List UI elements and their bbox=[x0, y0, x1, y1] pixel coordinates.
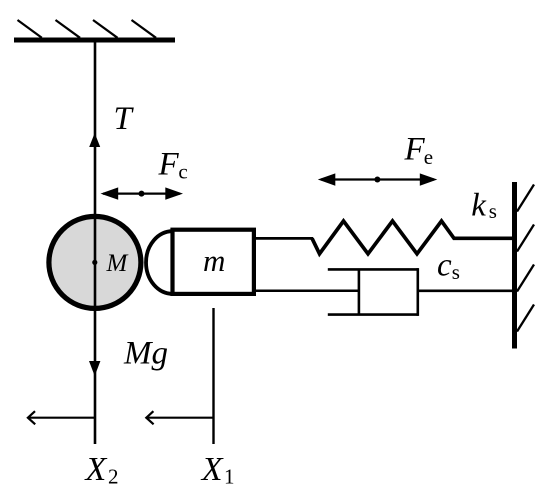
label M bbox=[106, 250, 129, 277]
svg-text:1: 1 bbox=[224, 464, 235, 488]
svg-text:X: X bbox=[84, 451, 108, 488]
damper cylinder bbox=[328, 268, 418, 316]
rod from damper to wall bbox=[418, 289, 512, 292]
weight arrowhead Mg bbox=[89, 361, 100, 376]
mass m block bbox=[173, 230, 254, 294]
svg-text:Mg: Mg bbox=[123, 335, 168, 371]
displacement arrow X1 bbox=[146, 411, 214, 424]
displacement arrow X2 bbox=[28, 411, 96, 424]
svg-text:T: T bbox=[114, 101, 135, 137]
label Fe bbox=[404, 132, 434, 170]
label Fc bbox=[158, 147, 188, 184]
spring ks bbox=[312, 221, 512, 254]
force arrow Fe (double-headed) bbox=[318, 173, 438, 185]
label cs bbox=[437, 248, 460, 284]
svg-text:X: X bbox=[200, 451, 224, 488]
tension arrowhead T bbox=[89, 133, 100, 147]
svg-text:F: F bbox=[404, 132, 426, 168]
contact cap (rounded nose of mass m) bbox=[146, 231, 172, 294]
pendulum wire (vertical line through M, X2 axis) bbox=[94, 40, 97, 444]
force arrow Fc (double-headed) bbox=[101, 187, 184, 199]
wall support bar bbox=[512, 182, 517, 349]
label X2 bbox=[84, 451, 119, 488]
svg-text:m: m bbox=[203, 243, 225, 278]
label ks bbox=[471, 188, 497, 224]
displacement axis line X1 bbox=[212, 308, 214, 444]
damper piston plate bbox=[358, 269, 361, 314]
svg-text:M: M bbox=[106, 250, 129, 277]
ceiling support bar bbox=[14, 38, 175, 43]
pivot center dot bbox=[92, 260, 97, 265]
label T bbox=[114, 101, 135, 137]
label m bbox=[203, 243, 225, 278]
svg-text:s: s bbox=[489, 199, 497, 223]
svg-text:c: c bbox=[437, 248, 452, 284]
label X1 bbox=[200, 451, 235, 488]
svg-text:F: F bbox=[158, 147, 180, 183]
mass M circle bbox=[49, 216, 141, 308]
label Mg bbox=[123, 335, 168, 371]
damper piston rod bbox=[254, 290, 359, 293]
svg-text:c: c bbox=[178, 160, 187, 184]
svg-text:e: e bbox=[424, 145, 433, 169]
svg-text:k: k bbox=[471, 188, 487, 224]
rod from m to spring bbox=[254, 237, 313, 240]
svg-text:2: 2 bbox=[108, 464, 119, 488]
svg-text:s: s bbox=[452, 260, 460, 284]
ceiling hatch marks bbox=[18, 20, 157, 38]
wall hatch marks bbox=[517, 185, 534, 332]
